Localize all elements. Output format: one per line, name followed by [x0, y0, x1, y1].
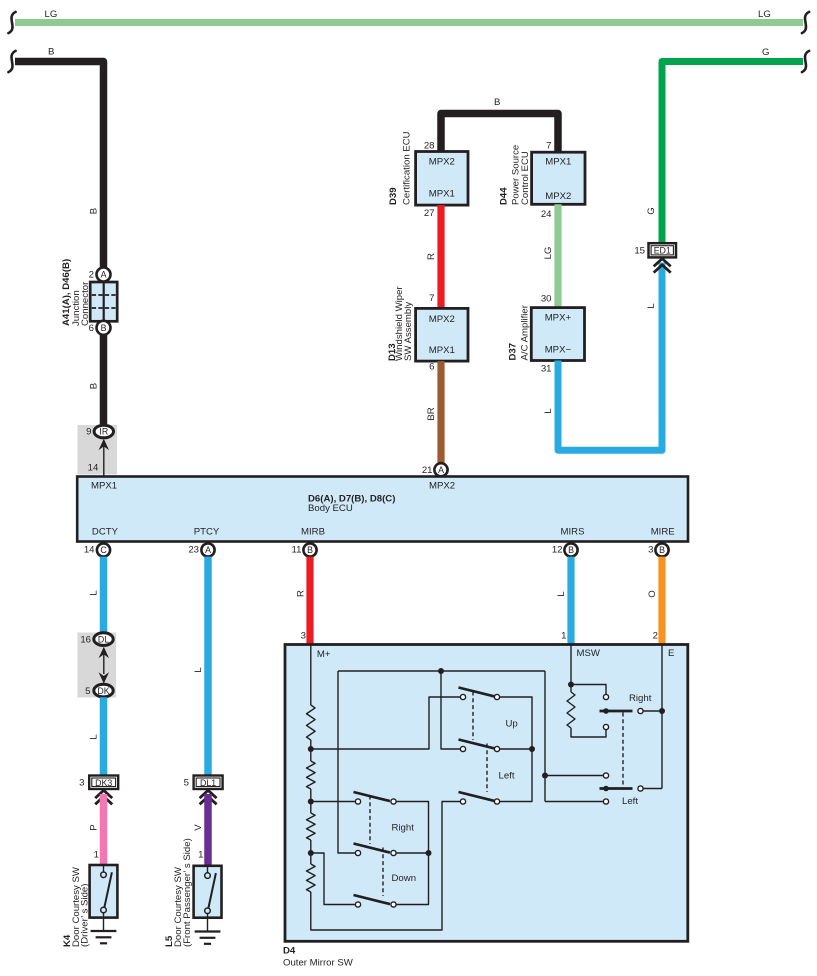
gang link selector (dashed): [622, 713, 624, 788]
wire node M2 to Right-upper left contact: [311, 801, 356, 803]
svg-text:B: B: [48, 47, 54, 58]
wire node T1 to Up-lower left contact: [441, 671, 460, 749]
twisted pair arrows DL-DK: [99, 647, 109, 684]
label K4 Door Courtesy SW (Driver's Side): [62, 866, 90, 947]
gang link S5-S6 (dashed): [382, 848, 384, 897]
svg-text:14: 14: [88, 463, 99, 474]
label Right (mid-left): [392, 823, 415, 834]
svg-text:SW Assembly: SW Assembly: [403, 302, 414, 361]
ground at K4: [91, 931, 117, 943]
resistor R-1 (M+ chain): [307, 705, 316, 740]
svg-text:MPX2: MPX2: [429, 314, 455, 325]
wire L (D37 pin31 to ED1 pin15): [541, 263, 662, 451]
svg-text:11: 11: [292, 545, 302, 556]
gang link S4-S5 (dashed): [369, 796, 371, 845]
svg-text:30: 30: [541, 294, 552, 305]
svg-text:3: 3: [301, 631, 306, 642]
shield block (gray) at IR: [78, 425, 118, 475]
svg-text:L: L: [646, 303, 657, 309]
svg-text:7: 7: [429, 293, 434, 304]
connector pin 6 (B) of A41: [89, 321, 111, 335]
wire MSW to selector upper contact: [571, 685, 606, 695]
svg-text:LG: LG: [45, 9, 58, 20]
svg-text:L: L: [89, 734, 100, 740]
svg-text:5: 5: [184, 777, 189, 788]
svg-text:O: O: [647, 590, 658, 597]
svg-text:6: 6: [429, 362, 434, 373]
connector pin 12 (B) MIRS: [552, 543, 578, 556]
svg-text:Certification ECU: Certification ECU: [402, 131, 413, 205]
selector common (upper): [638, 708, 662, 713]
svg-text:1: 1: [561, 631, 566, 642]
svg-text:D37: D37: [508, 343, 519, 361]
svg-text:Down: Down: [392, 873, 417, 884]
connector pin 23 (A) PTCY: [188, 543, 214, 556]
svg-text:Right: Right: [629, 693, 652, 704]
wire right bus x532 (S1/S2/S3 commons): [500, 697, 532, 802]
svg-text:G: G: [646, 207, 657, 214]
svg-text:1: 1: [94, 850, 99, 861]
svg-text:M+: M+: [317, 649, 331, 660]
switch S3 (Left lower) contacts: [460, 799, 499, 804]
selector blade lower: [600, 786, 633, 792]
wire B (A41 to IR): [89, 208, 104, 424]
svg-text:MPX2: MPX2: [429, 157, 455, 168]
node M3: [308, 850, 314, 856]
svg-text:B: B: [89, 208, 100, 214]
svg-text:MPX+: MPX+: [545, 312, 572, 323]
wire LG (D44 pin24 to D37 pin30): [541, 204, 558, 307]
switch S4 blade: [354, 792, 391, 801]
svg-text:Up: Up: [506, 719, 518, 730]
connector DL1 pin 5: [184, 776, 223, 790]
switch S6 (Down) contacts: [355, 902, 396, 907]
ground at L5: [195, 932, 221, 944]
wire MSW pin 1 lead: [570, 645, 572, 692]
switch S2 blade: [459, 740, 496, 749]
svg-text:R: R: [296, 590, 307, 597]
svg-text:B: B: [568, 545, 574, 555]
wire L (MIRS to D4 pin1): [556, 557, 571, 644]
svg-text:A: A: [101, 270, 107, 280]
svg-text:D39: D39: [388, 187, 399, 205]
ECU U-D44 Power Source Control ECU: [499, 145, 586, 205]
wire B bridge (D39 pin28 to D44 pin7): [424, 97, 558, 152]
svg-text:E: E: [668, 648, 674, 659]
node M1: [308, 746, 314, 752]
wire node M3 to Down left contact: [311, 853, 356, 905]
svg-text:Outer Mirror SW: Outer Mirror SW: [283, 957, 354, 968]
wire top bus (common): [338, 670, 545, 672]
svg-text:Body ECU: Body ECU: [308, 503, 353, 514]
selector common (lower): [638, 786, 662, 791]
switch K4 Door Courtesy SW (Driver side): [90, 865, 118, 931]
svg-text:27: 27: [424, 208, 435, 219]
svg-text:B: B: [89, 383, 100, 389]
connector pin 2 (A) of A41: [89, 268, 111, 282]
svg-text:B: B: [101, 323, 107, 333]
svg-text:MPX−: MPX−: [545, 344, 572, 355]
svg-text:14: 14: [84, 545, 95, 556]
wire bottom route (resistor chain to Left-down contact): [311, 802, 461, 931]
svg-text:(Driver’ s Side): (Driver’ s Side): [79, 884, 90, 947]
svg-text:C: C: [100, 545, 107, 555]
wire O (MIRE to D4 pin2): [647, 557, 662, 644]
label Up: [506, 719, 518, 730]
label A41(A), D46(B) Junction Connector: [61, 259, 91, 326]
switch S3 blade: [459, 792, 496, 801]
splice chevron below DK3: [95, 790, 112, 804]
wire R (MIRB to D4 pin3): [296, 557, 311, 644]
switch S2 (Up lower / Left upper) contacts: [460, 746, 499, 751]
svg-text:31: 31: [541, 363, 552, 374]
svg-text:L: L: [89, 590, 100, 596]
gang link S2-S3 (dashed): [486, 744, 488, 793]
svg-text:DK: DK: [97, 686, 109, 696]
wire L (DCTY to DL): [89, 557, 104, 633]
switch S6 blade: [354, 895, 391, 904]
svg-text:BR: BR: [426, 407, 437, 420]
svg-text:DCTY: DCTY: [92, 527, 119, 538]
ECU U-Body ECU D6(A), D7(B), D8(C): [77, 477, 688, 542]
wire left riser x338 to Right-lower contact: [338, 671, 355, 853]
svg-text:23: 23: [188, 545, 199, 556]
wire L (DK to DK3): [89, 697, 104, 775]
svg-text:28: 28: [424, 140, 435, 151]
svg-text:MPX1: MPX1: [545, 157, 571, 168]
connector ED1 pin 15: [634, 243, 676, 257]
amplifier U-D37 A/C Amplifier: [508, 304, 585, 360]
connector DK3 pin 3: [79, 776, 118, 790]
svg-text:(Front Passenger’ s Side): (Front Passenger’ s Side): [182, 838, 193, 947]
switch S1 blade: [459, 688, 496, 697]
svg-text:MPX2: MPX2: [429, 480, 455, 491]
svg-text:B: B: [659, 545, 665, 555]
label G near ED1: [646, 207, 657, 214]
label Left (mid): [499, 771, 515, 782]
wire segment R2-R3: [310, 789, 312, 813]
node T1: [438, 668, 444, 674]
switch U-D13 Windshield Wiper SW Assembly: [387, 286, 468, 362]
svg-text:MIRE: MIRE: [651, 527, 675, 538]
wire LG bus (light green): [8, 9, 809, 33]
svg-text:16: 16: [80, 635, 91, 646]
wire BR (D13 pin6 to Body ECU pin21): [426, 361, 441, 463]
svg-text:A/C Amplifier: A/C Amplifier: [520, 304, 531, 360]
junction connector A41(A), D46(B): [90, 282, 117, 321]
svg-text:PTCY: PTCY: [194, 527, 220, 538]
svg-text:MIRS: MIRS: [561, 527, 585, 538]
connector pin 21 (A) at Body ECU: [422, 463, 448, 476]
svg-text:A: A: [205, 545, 211, 555]
svg-text:ED1: ED1: [654, 245, 671, 255]
svg-text:L: L: [556, 591, 567, 597]
svg-text:Right: Right: [392, 823, 415, 834]
svg-text:Control ECU: Control ECU: [520, 151, 531, 205]
gang link S1-S2 (dashed): [472, 692, 474, 741]
svg-text:G: G: [762, 47, 769, 58]
wire G bus (green): [662, 47, 809, 244]
wire E pin 2 lead: [661, 645, 663, 789]
node MSW-top: [568, 682, 574, 688]
wire right bus x428.5 (S4/S5/S6 commons): [396, 802, 428, 905]
svg-text:P: P: [89, 824, 100, 830]
connector pin 3 (B) MIRE: [648, 543, 668, 556]
switch S1 (Up upper) contacts: [460, 694, 499, 699]
wire MSW resistor to selector lower contact: [571, 728, 606, 737]
svg-text:R: R: [426, 253, 437, 260]
node M2: [308, 799, 314, 805]
svg-text:V: V: [193, 824, 204, 831]
svg-text:Connector: Connector: [80, 281, 91, 326]
wire R (D39 pin27 to D13 pin7): [424, 205, 441, 308]
svg-text:B: B: [307, 545, 313, 555]
connector DL pin 16: [80, 633, 113, 646]
svg-text:DK3: DK3: [95, 778, 112, 788]
wire V (DL1 to L5): [193, 794, 208, 866]
svg-text:L: L: [543, 408, 554, 414]
connector DK pin 5: [85, 684, 113, 697]
svg-text:MPX1: MPX1: [429, 345, 455, 356]
svg-text:IR: IR: [99, 427, 108, 437]
twisted-pair arrow below IR: [99, 439, 109, 450]
svg-text:7: 7: [546, 140, 551, 151]
svg-text:A: A: [438, 465, 444, 475]
svg-text:2: 2: [653, 631, 658, 642]
svg-text:B: B: [494, 97, 500, 108]
switch S4 (Right upper) contacts: [355, 799, 396, 804]
splice chevron below DL1: [200, 790, 217, 804]
svg-text:9: 9: [86, 427, 91, 438]
connector pin 11 (B) MIRB: [292, 543, 317, 556]
wire riser x545 (top bus to MSW-left selector): [545, 671, 603, 802]
svg-text:2: 2: [89, 270, 94, 281]
svg-text:DL: DL: [98, 634, 109, 644]
resistor R-5 (MSW): [567, 692, 575, 728]
node S5-common: [426, 850, 432, 856]
svg-text:D44: D44: [499, 187, 510, 205]
svg-text:D4: D4: [283, 946, 296, 957]
svg-text:MPX1: MPX1: [429, 189, 455, 200]
resistor R-2: [307, 761, 316, 789]
svg-text:MPX2: MPX2: [545, 191, 571, 202]
svg-text:3: 3: [648, 545, 653, 556]
svg-text:15: 15: [634, 245, 645, 256]
label Down: [392, 873, 417, 884]
svg-text:LG: LG: [543, 247, 554, 260]
shield block (gray) at DL/DK: [77, 633, 116, 698]
connector pin 14 (C) DCTY: [84, 543, 110, 556]
selector lower contacts (Left side): [603, 773, 608, 804]
node MSW-left: [542, 773, 548, 779]
ECU U-D39 Certification ECU: [388, 131, 468, 205]
svg-text:5: 5: [85, 686, 90, 697]
switch L5 Door Courtesy SW (Front Passenger side): [194, 866, 222, 931]
wire segment R1-R2: [310, 740, 312, 761]
svg-text:L: L: [193, 667, 204, 673]
resistor R-4: [307, 864, 316, 892]
wire pin 14 into Body ECU: [88, 446, 104, 476]
selector upper contacts (Right side): [603, 694, 608, 729]
svg-text:1: 1: [198, 850, 203, 861]
svg-text:DL1: DL1: [200, 778, 216, 788]
svg-text:24: 24: [541, 209, 552, 220]
svg-text:Left: Left: [622, 796, 638, 807]
svg-text:6: 6: [89, 323, 94, 334]
resistor R-3: [307, 813, 316, 840]
label Right (selector): [629, 693, 652, 704]
wire M+ pin 3 lead: [310, 645, 312, 705]
node S2-common: [529, 746, 535, 752]
svg-text:Left: Left: [499, 771, 515, 782]
splice chevron below ED1: [654, 259, 671, 273]
svg-text:12: 12: [552, 545, 563, 556]
svg-text:21: 21: [422, 465, 433, 476]
label Left (selector): [622, 796, 638, 807]
wire segment R3-R4: [310, 840, 312, 864]
connector IR pin 9: [86, 425, 113, 438]
svg-text:MSW: MSW: [577, 648, 601, 659]
wire node M1 to Up-upper left contact: [311, 697, 461, 749]
svg-text:3: 3: [79, 777, 84, 788]
wire B from battery (black): [8, 47, 103, 269]
svg-text:LG: LG: [758, 9, 771, 20]
selector blade upper: [600, 708, 633, 714]
wire P (DK3 to K4): [89, 794, 104, 865]
svg-text:MIRB: MIRB: [301, 527, 325, 538]
label L5 Door Courtesy SW (Front Passenger's Side): [164, 838, 193, 947]
wire L (PTCY to DL1): [193, 557, 208, 776]
svg-text:MPX1: MPX1: [91, 480, 117, 491]
switch box D4 Outer Mirror SW: [283, 645, 688, 969]
switch S5 (Right lower) contacts: [355, 850, 396, 855]
switch S5 blade: [354, 844, 391, 853]
node E-junction: [659, 708, 665, 714]
